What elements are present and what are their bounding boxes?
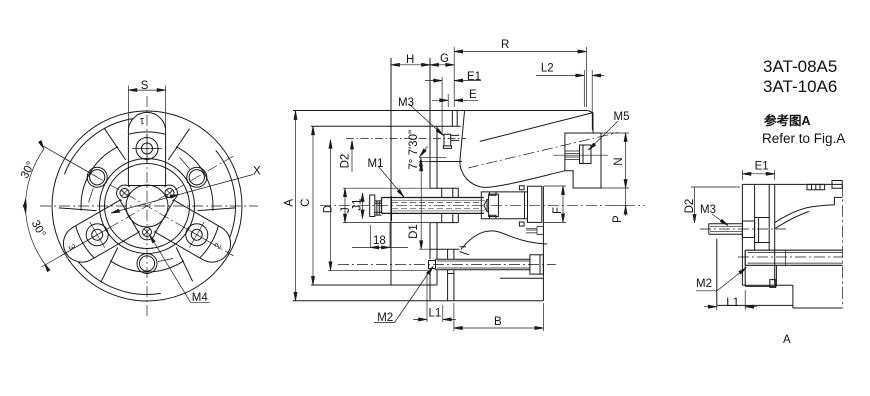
M3 screw shank (fig A) — [709, 224, 743, 234]
svg-text:M4: M4 — [192, 292, 209, 304]
wedge axis centerline — [468, 133, 618, 169]
piston corner notch top — [490, 192, 497, 195]
rod passes front face heavy line — [390, 196, 392, 221]
dim 18 — [352, 222, 408, 249]
dim D2 (fig A) — [691, 187, 740, 223]
bottom edge left — [717, 304, 793, 306]
seal box top 2 — [832, 181, 842, 189]
M2 counterbore lines — [745, 266, 776, 287]
rear flange hole walls — [448, 249, 454, 301]
rear step edge — [448, 274, 544, 279]
hub rear vertical — [429, 58, 431, 301]
raised sector arcs r=66 between jaws — [81, 147, 118, 211]
svg-text:X: X — [253, 166, 261, 178]
between-jaw hole 150deg — [76, 164, 111, 205]
horizontal centerline — [40, 205, 258, 207]
leader M4 — [148, 234, 209, 302]
hub top edge — [311, 125, 461, 127]
svg-text:M1: M1 — [368, 158, 384, 170]
seal box top 1 — [807, 184, 825, 189]
dim F — [544, 186, 566, 222]
jaw 2 bolt — [77, 214, 118, 255]
svg-text:R: R — [501, 39, 509, 51]
svg-text:M3: M3 — [398, 97, 414, 109]
vertical centerline — [146, 96, 148, 318]
dimension S — [128, 86, 165, 129]
svg-text:M3: M3 — [700, 204, 716, 216]
left face — [716, 239, 718, 305]
body bottom edge — [293, 300, 543, 302]
dim D2 — [346, 139, 466, 172]
dim R — [454, 47, 586, 107]
svg-text:B: B — [494, 316, 502, 328]
svg-text:1: 1 — [140, 116, 145, 126]
M3 screw head (section) — [443, 134, 451, 148]
right break line — [842, 184, 844, 308]
jaw 3 (lower left) — [155, 200, 237, 269]
M1 rod collar grooves — [375, 201, 382, 215]
label M3 (fig A) — [712, 214, 729, 227]
svg-text:30°: 30° — [19, 160, 38, 181]
dim D1 — [419, 162, 430, 250]
svg-text:7° 7'30": 7° 7'30" — [408, 130, 420, 170]
svg-text:H: H — [406, 54, 414, 66]
M3 thread stub — [451, 135, 460, 140]
dim E — [432, 94, 478, 107]
M2 bolt shaft — [436, 259, 530, 270]
M2 bolt tip — [429, 261, 436, 269]
M2 bolt (fig A) — [745, 250, 842, 265]
column left wall — [741, 184, 743, 285]
svg-text:L2: L2 — [541, 63, 554, 75]
web step stub lower — [460, 252, 470, 255]
hub circle outer — [100, 159, 195, 254]
plate seal bottom — [519, 222, 524, 226]
svg-text:M2: M2 — [696, 278, 712, 290]
web S-curve — [461, 231, 547, 250]
chuck rim arc 2 — [181, 150, 264, 237]
wedge jaw outline — [460, 110, 565, 187]
label M2 (fig A) — [696, 266, 747, 291]
dim D with extension dashdot — [328, 140, 428, 270]
dim P — [610, 188, 629, 216]
svg-text:E: E — [469, 89, 477, 101]
svg-text:E1: E1 — [755, 161, 769, 173]
set screw 270deg with relief arc — [139, 228, 155, 240]
svg-text:S: S — [141, 80, 149, 92]
svg-text:M2: M2 — [377, 312, 393, 324]
chuck outer circle — [52, 111, 242, 301]
angle dim 30deg lower — [23, 205, 97, 272]
svg-text:J: J — [340, 207, 352, 213]
jaw 1 bolt — [132, 134, 162, 164]
bore top edge — [430, 161, 462, 163]
M5 block — [565, 133, 601, 188]
svg-text:C: C — [300, 198, 312, 206]
angle dim 30deg upper — [23, 141, 97, 207]
between-jaw hole 270deg — [137, 254, 173, 274]
svg-text:3AT-10A6: 3AT-10A6 — [763, 77, 837, 96]
leader X — [111, 175, 253, 215]
set screw 150deg with relief arc — [114, 182, 133, 202]
counterbore walls (fig A) — [755, 184, 770, 250]
T-nut in piston — [489, 194, 499, 216]
svg-text:D2: D2 — [684, 199, 696, 214]
step notch right — [834, 197, 842, 205]
svg-text:30°: 30° — [29, 218, 48, 239]
M2 bolt axis — [338, 263, 556, 265]
svg-text:A: A — [284, 199, 296, 207]
svg-text:G: G — [440, 53, 449, 65]
M3 screw head (fig A) — [755, 218, 770, 243]
piston flange plate — [528, 186, 542, 222]
svg-text:N: N — [613, 157, 625, 165]
svg-text:D: D — [323, 205, 335, 213]
diagonal centerline 30-210 — [60, 156, 233, 256]
diagonal centerline 150-330 — [60, 156, 233, 256]
set screw 30deg with relief arc — [162, 182, 181, 202]
svg-text:3AT-08A5: 3AT-08A5 — [763, 57, 837, 76]
jaw 2 (lower right) — [57, 200, 139, 269]
chuck rim arc 1 — [64, 119, 133, 175]
svg-text:M5: M5 — [614, 111, 630, 123]
dim L1 (fig A) — [704, 290, 757, 310]
label M2 leader — [374, 266, 434, 323]
web step stub top — [460, 246, 467, 248]
svg-text:F: F — [552, 207, 564, 214]
column right wall — [774, 184, 776, 285]
main axis centerline — [320, 205, 645, 207]
top edge — [742, 183, 842, 185]
M5 screw — [580, 145, 592, 164]
svg-text:L1: L1 — [429, 308, 442, 320]
dim B — [454, 303, 544, 331]
wedge top corner join — [588, 111, 593, 113]
svg-text:J1: J1 — [352, 198, 364, 210]
dim E1 (fig A) — [742, 170, 774, 180]
rod boss collar — [430, 188, 458, 222]
svg-text:参考图A: 参考图A — [764, 113, 811, 128]
label M1 leader — [378, 166, 405, 198]
inner wall vertical — [436, 126, 438, 285]
svg-text:18: 18 — [373, 235, 386, 247]
M3 axis (fig A) — [700, 228, 786, 230]
dim C — [311, 126, 314, 285]
bore bottom edge — [430, 248, 460, 250]
M2 axis (fig A) — [738, 256, 843, 258]
between-jaw hole 30deg — [175, 150, 210, 191]
dim L2 — [536, 70, 604, 130]
angle dim 7deg7'30" — [418, 147, 446, 167]
dim G — [430, 47, 454, 107]
label M5 leader — [587, 121, 618, 151]
body top edge — [293, 110, 588, 112]
bottom step — [793, 285, 843, 308]
column bottom — [742, 284, 793, 286]
svg-text:A: A — [783, 334, 791, 346]
dim A — [294, 111, 297, 301]
dim N — [601, 133, 629, 188]
body S-curve — [775, 205, 835, 223]
hub circle inner — [105, 164, 190, 249]
dim J1 — [361, 193, 364, 219]
svg-text:D2: D2 — [340, 154, 352, 169]
piston corner notch bottom — [490, 215, 497, 218]
front lip verticals — [452, 111, 457, 127]
retainer screw in plate — [526, 227, 543, 235]
label M3 leader — [409, 104, 445, 137]
center bore circle — [126, 185, 168, 227]
M5 screw axis — [553, 154, 608, 156]
chuck rim arc 3 — [78, 234, 161, 321]
svg-text:P: P — [612, 215, 624, 223]
wedge inner slant — [480, 113, 593, 142]
M1 screw rod knob — [370, 195, 375, 217]
front face vertical — [390, 58, 392, 285]
dim L1 — [413, 272, 456, 322]
svg-text:E1: E1 — [467, 71, 481, 83]
svg-text:L1: L1 — [726, 297, 739, 309]
jaw 1 (top) — [128, 112, 165, 185]
M2 bolt head — [530, 255, 544, 274]
svg-text:D1: D1 — [408, 224, 420, 239]
svg-text:Refer to Fig.A: Refer to Fig.A — [762, 131, 845, 146]
dim E1 — [425, 77, 481, 134]
dim J — [343, 188, 430, 222]
body rear wall — [542, 186, 544, 301]
jaw 3 bolt — [176, 214, 217, 255]
slot edge lines flanking jaws — [105, 129, 190, 160]
wedge right face — [592, 113, 594, 133]
dim H — [391, 58, 430, 122]
M3 screw collar (fig A) — [742, 221, 754, 238]
column bottom seal box — [770, 280, 776, 288]
piston head block — [481, 192, 527, 219]
hub bottom edge — [311, 284, 437, 286]
plate seal top — [519, 186, 524, 190]
M1 threaded rod — [382, 198, 484, 214]
